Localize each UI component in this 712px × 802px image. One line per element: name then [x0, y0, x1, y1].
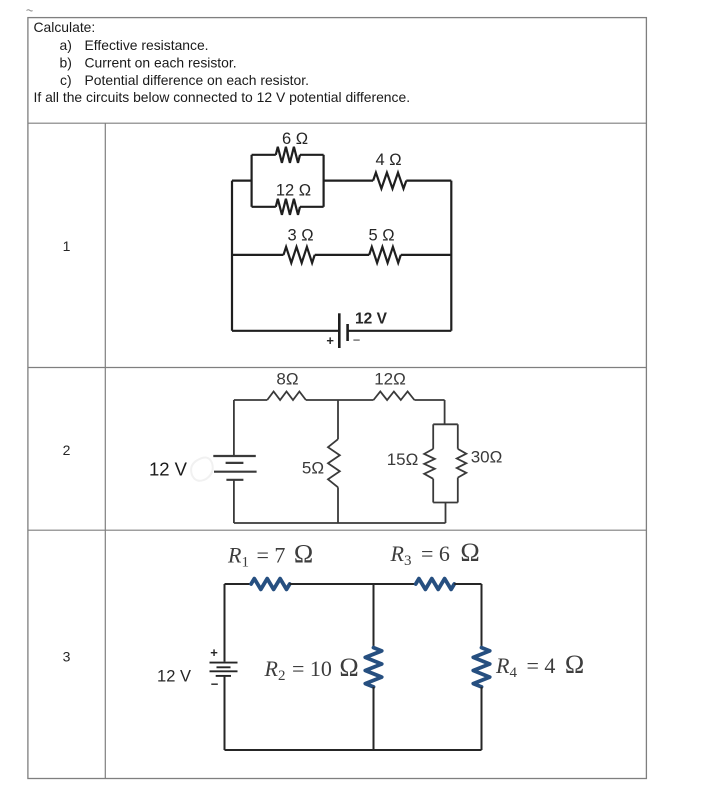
- svg-text:15Ω: 15Ω: [387, 450, 419, 469]
- svg-text:Effective resistance.: Effective resistance.: [85, 37, 209, 53]
- svg-text:12Ω: 12Ω: [374, 370, 406, 389]
- svg-text:b): b): [60, 54, 72, 70]
- svg-text:−: −: [353, 333, 361, 348]
- svg-text:4 Ω: 4 Ω: [375, 151, 401, 169]
- svg-text:1: 1: [63, 238, 71, 254]
- svg-text:12 Ω: 12 Ω: [276, 182, 311, 200]
- svg-text:R3 = 6 Ω: R3 = 6 Ω: [390, 538, 480, 569]
- svg-text:5 Ω: 5 Ω: [368, 227, 394, 245]
- svg-text:R4 = 4 Ω: R4 = 4 Ω: [495, 650, 584, 681]
- svg-text:3: 3: [63, 649, 71, 665]
- svg-text:+: +: [326, 333, 334, 348]
- svg-text:6 Ω: 6 Ω: [282, 130, 308, 148]
- svg-text:Current on each resistor.: Current on each resistor.: [85, 54, 237, 70]
- svg-text:12 V: 12 V: [149, 458, 188, 479]
- svg-text:Potential difference on each r: Potential difference on each resistor.: [85, 72, 309, 88]
- svg-text:If all the circuits below conn: If all the circuits below connected to 1…: [34, 89, 411, 105]
- svg-text:a): a): [60, 37, 72, 53]
- svg-text:−: −: [211, 677, 219, 692]
- svg-text:30Ω: 30Ω: [471, 448, 503, 467]
- svg-text:c): c): [60, 72, 72, 88]
- svg-text:3 Ω: 3 Ω: [287, 227, 313, 245]
- svg-text:2: 2: [63, 442, 71, 458]
- svg-text:12 V: 12 V: [355, 310, 388, 327]
- svg-text:5Ω: 5Ω: [302, 459, 324, 478]
- svg-text:8Ω: 8Ω: [276, 370, 298, 389]
- svg-text:Calculate:: Calculate:: [34, 19, 96, 35]
- svg-text:12 V: 12 V: [157, 668, 191, 686]
- svg-text:R2 = 10 Ω: R2 = 10 Ω: [264, 653, 359, 684]
- svg-text:+: +: [210, 645, 218, 660]
- svg-text:R1 = 7 Ω: R1 = 7 Ω: [227, 540, 313, 571]
